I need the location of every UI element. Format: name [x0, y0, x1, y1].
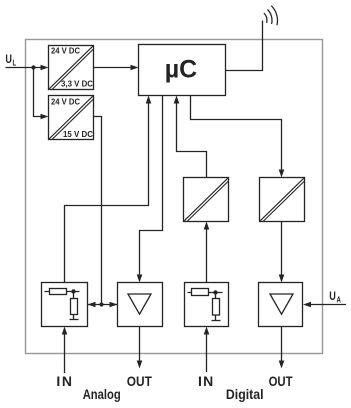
svg-text:Analog: Analog — [83, 386, 121, 402]
svg-text:24 V DC: 24 V DC — [51, 46, 80, 56]
svg-text:15 V DC: 15 V DC — [63, 129, 93, 139]
svg-text:IN: IN — [56, 373, 73, 389]
svg-text:µC: µC — [165, 56, 197, 84]
svg-text:OUT: OUT — [127, 373, 152, 389]
svg-text:Digital: Digital — [226, 386, 264, 402]
svg-text:A: A — [337, 294, 341, 304]
svg-text:IN: IN — [198, 373, 214, 389]
svg-text:OUT: OUT — [269, 373, 293, 389]
svg-text:L: L — [13, 57, 17, 67]
svg-text:24 V DC: 24 V DC — [51, 96, 80, 106]
svg-text:3,3 V DC: 3,3 V DC — [61, 79, 93, 89]
svg-text:U: U — [5, 54, 12, 66]
svg-text:U: U — [329, 291, 336, 303]
